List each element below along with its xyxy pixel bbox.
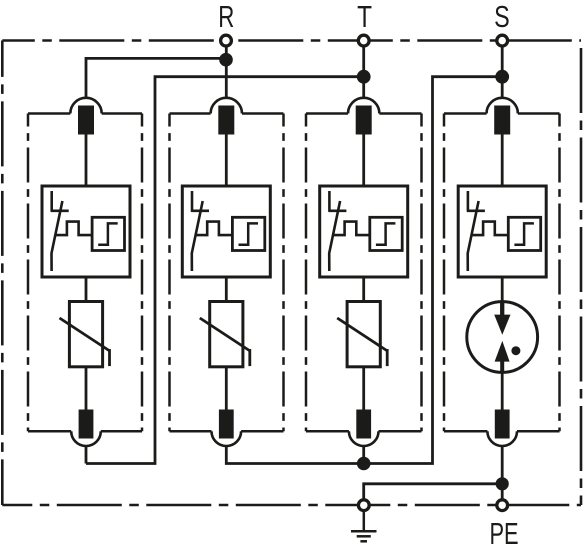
svg-text:R: R [218, 0, 234, 34]
svg-text:S: S [494, 0, 510, 34]
svg-text:PE: PE [489, 516, 518, 551]
svg-text:T: T [357, 0, 372, 34]
